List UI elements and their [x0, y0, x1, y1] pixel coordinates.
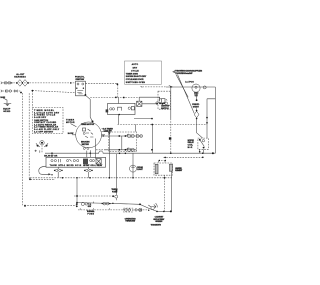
- fuse TF1 thermal: [76, 202, 92, 208]
- box motor switch dashed: [158, 91, 171, 109]
- wire diamond to relay: [197, 119, 203, 138]
- wire connector down: [41, 145, 43, 153]
- svg-text:RELAY: RELAY: [97, 164, 103, 167]
- node timer top dot: [92, 120, 94, 122]
- svg-text:START SW: START SW: [75, 78, 84, 81]
- box heater sub rect: [106, 104, 135, 115]
- wire stubs right of timer: [102, 128, 110, 134]
- switch S2 on buss: [169, 85, 173, 87]
- svg-text:THERMOSTAT: THERMOSTAT: [125, 220, 136, 223]
- svg-text:HARNESS: HARNESS: [14, 75, 26, 78]
- thermostat TS1 pair: [102, 202, 111, 205]
- wire line2 y203.4: [76, 202, 141, 206]
- wire leader line B: [178, 75, 195, 114]
- wire right edge vertical: [214, 87, 216, 153]
- svg-text:SHOWN IN AUTO DRY: SHOWN IN AUTO DRY: [126, 75, 147, 78]
- svg-text:SWITCH: SWITCH: [161, 108, 169, 110]
- wire dashed y119.7: [118, 123, 208, 125]
- timer inner contacts: [83, 128, 94, 138]
- svg-text:DRY: DRY: [133, 67, 138, 69]
- label thermostat: [87, 210, 136, 222]
- switch S1 gnd lever: [3, 98, 7, 103]
- svg-text:LIGHT: LIGHT: [137, 169, 143, 171]
- svg-text:AUTO: AUTO: [132, 63, 139, 66]
- wire contact row1: [102, 135, 143, 137]
- svg-text:GREEN: GREEN: [155, 221, 163, 223]
- terminal block symbols: [51, 159, 101, 165]
- label resistor: [175, 167, 183, 172]
- wire right dashed vertical: [164, 175, 166, 211]
- label legend text: [126, 63, 147, 84]
- svg-text:START: START: [193, 106, 200, 109]
- connector P1 inline pair: [5, 82, 11, 85]
- wire sensor vertical dashed: [28, 93, 30, 179]
- node J2 junction: [20, 92, 22, 94]
- svg-text:FUSE: FUSE: [87, 213, 94, 215]
- label drum light: [137, 167, 143, 171]
- svg-text:TIMER MOTOR: TIMER MOTOR: [81, 124, 95, 126]
- wire leader line A: [176, 75, 188, 98]
- wire contact row2: [96, 149, 137, 151]
- switch S4 contacts row2: [118, 148, 134, 152]
- resistor R1 hatched box: [154, 161, 172, 175]
- connector small ring: [203, 86, 206, 89]
- wire relay to dots: [142, 102, 168, 105]
- label relay: [188, 140, 195, 149]
- label NC: [0, 97, 5, 99]
- label under bus: [44, 156, 58, 158]
- wire L1 dashed top row: [3, 82, 76, 84]
- svg-text:CYCLE: CYCLE: [131, 71, 139, 73]
- box door switch DS1: [76, 81, 87, 96]
- svg-text:FUSE: FUSE: [112, 191, 118, 193]
- switch S5 below block: [54, 167, 63, 178]
- node dot heater bottom: [118, 114, 120, 116]
- connector P3 terminal: [15, 90, 18, 93]
- timer bottom text: [81, 142, 90, 146]
- svg-text:CAM SW: CAM SW: [104, 130, 112, 133]
- box timer legend dashed: [32, 108, 63, 134]
- wire right jog top: [119, 98, 154, 154]
- wire right inner loop: [206, 99, 215, 138]
- heater HE1 symbols: [110, 107, 135, 111]
- svg-text:MOTOR: MOTOR: [66, 122, 75, 124]
- label door switch: [75, 77, 85, 81]
- wire sensor dashed stub: [31, 178, 56, 180]
- label timer left: [66, 119, 76, 127]
- timer bottom contacts: [83, 147, 89, 149]
- relay box small X: [134, 101, 142, 106]
- connector X2 diamond: [194, 108, 199, 119]
- svg-text:4-5 OFF DETENT: 4-5 OFF DETENT: [34, 130, 54, 133]
- label equip gnd: [3, 109, 11, 113]
- label main harness: [14, 73, 26, 79]
- node J1 junction dot: [11, 82, 12, 83]
- svg-text:SW: SW: [88, 206, 92, 208]
- node dots on dashed bus: [62, 177, 110, 179]
- connector X1 diamond pair: [16, 80, 29, 87]
- label note this wiring: [173, 69, 203, 75]
- wire y118.4: [134, 118, 153, 120]
- box legend auto dry: [125, 61, 162, 84]
- svg-text:W10185970: W10185970: [151, 225, 162, 227]
- cluster rise wire: [156, 203, 158, 207]
- svg-text:M-R: M-R: [188, 147, 193, 149]
- wire heater buss solid: [166, 86, 215, 88]
- hi-limit cluster: [141, 204, 158, 211]
- label centrifugal sw: [161, 106, 170, 110]
- relay K1 dashed box: [198, 138, 209, 149]
- svg-text:3-AIR DRY: 3-AIR DRY: [34, 116, 47, 119]
- switch S3 contacts row1: [127, 134, 143, 138]
- label cabinet ground: [151, 215, 165, 226]
- motor M1 circle: [192, 84, 200, 96]
- label 3-4 pos: [185, 81, 194, 84]
- svg-text:GRND: GRND: [3, 111, 11, 113]
- svg-text:ELEMENT: ELEMENT: [175, 170, 183, 172]
- svg-text:TH-SW: TH-SW: [50, 165, 57, 167]
- label push to start: [192, 104, 199, 108]
- sensor dashed loop: [39, 166, 53, 175]
- svg-text:SWITCHES OPEN: SWITCHES OPEN: [126, 82, 146, 84]
- thermostat TS2 dashed box: [78, 208, 148, 212]
- wire main dashed bus y178: [30, 177, 172, 179]
- wire dashed y196: [74, 195, 118, 200]
- label timer left2: [68, 133, 76, 135]
- wire bottom right run: [156, 210, 172, 212]
- switch S6 below block: [84, 167, 93, 178]
- component x117 thermal: [111, 154, 117, 195]
- box rows dashed enclosure: [109, 132, 137, 152]
- wire N neutral dashed row2: [1, 90, 21, 92]
- wire timer enclosure top dashed: [32, 91, 75, 108]
- switch door lever to timer: [85, 95, 92, 121]
- wire bottom dashed run: [25, 205, 78, 207]
- svg-text:CYCLE AND DOOR: CYCLE AND DOOR: [126, 78, 144, 81]
- wire dashed y157: [158, 157, 203, 162]
- svg-text:BK RD: BK RD: [67, 165, 75, 167]
- node L1 connector ticks: [1, 82, 2, 84]
- wire motor down: [196, 93, 198, 102]
- svg-text:TIMER SWS: TIMER SWS: [126, 73, 139, 75]
- box terminal block: [46, 157, 106, 167]
- svg-text:GY-N: GY-N: [75, 165, 82, 167]
- wire stubs above terminal block: [52, 139, 95, 159]
- ground chassis: [4, 103, 12, 106]
- wire x170.8 vertical: [169, 87, 171, 153]
- svg-text:3-4 POS: 3-4 POS: [185, 81, 194, 84]
- lamp DL1 drum light: [130, 153, 137, 178]
- svg-text:BELT SW: BELT SW: [82, 144, 89, 146]
- label timer model list: [34, 110, 60, 133]
- node J4 sensor dot: [29, 178, 31, 180]
- wire relay stubs down: [199, 149, 204, 153]
- wire row link vertical: [121, 136, 123, 150]
- node J3 corner dot: [24, 205, 26, 207]
- wire long bus y153: [45, 151, 215, 153]
- motor M1 brush block: [194, 93, 198, 96]
- timer T1 circle: [76, 122, 102, 148]
- wire x77 vertical: [76, 178, 78, 204]
- node dots on bus: [51, 152, 214, 154]
- label wire tag triangle: [103, 127, 114, 135]
- node J5 enclosure corner: [32, 90, 34, 92]
- wire right solid vertical: [171, 171, 173, 212]
- svg-text:HTR-1: HTR-1: [58, 165, 65, 167]
- connector P2 inline pair: [6, 90, 12, 93]
- svg-text:HI-TMP: HI-TMP: [83, 165, 90, 167]
- label terminal strip: [50, 164, 103, 167]
- connector CR1 circle: [35, 141, 48, 153]
- wire door switch to buss dashed: [85, 83, 166, 97]
- wire vert x109: [108, 128, 110, 178]
- label timer inner: [81, 124, 95, 126]
- wire neutral vertical dashed: [21, 93, 23, 205]
- wire loop over top: [90, 97, 159, 102]
